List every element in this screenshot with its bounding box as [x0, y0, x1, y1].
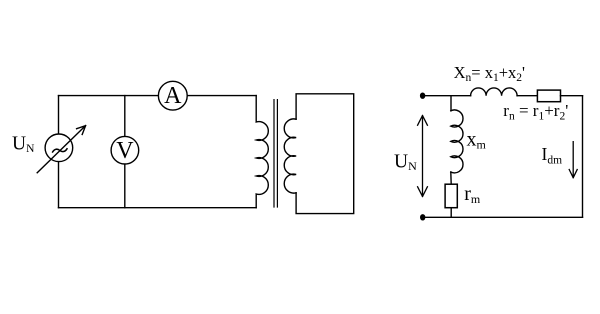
current arrow I_dm [569, 142, 577, 178]
source U_N circle [45, 134, 73, 162]
wire resistor to corner [561, 95, 583, 97]
secondary load box [296, 94, 354, 214]
inductor X_n [471, 88, 517, 96]
wire top (right circuit) [423, 95, 471, 97]
svg-text:UN: UN [394, 151, 417, 173]
svg-text:rm: rm [464, 183, 481, 206]
wire left loop top [59, 95, 257, 97]
wire inductor to resistor [517, 95, 537, 97]
resistor r_n [537, 90, 560, 102]
transformer primary winding [256, 96, 268, 208]
source adjust arrow [37, 126, 85, 173]
transformer core [274, 100, 277, 207]
svg-text:A: A [164, 83, 182, 109]
node bottom-left (right circuit) [420, 214, 425, 220]
svg-text:UN: UN [12, 134, 35, 156]
wire bottom (right circuit) [423, 216, 583, 218]
wire left vertical [58, 96, 60, 208]
svg-text:Xn= x1+x2': Xn= x1+x2' [454, 63, 525, 84]
svg-text:Idm: Idm [542, 144, 563, 167]
ammeter A circle [158, 81, 187, 110]
wire resistor to bottom [450, 208, 452, 218]
node top-left (right circuit) [420, 93, 425, 99]
wire shunt branch top [450, 96, 452, 111]
wire voltmeter branch [124, 96, 126, 208]
svg-text:V: V [116, 138, 134, 164]
voltage arrow U_N (double headed) [418, 116, 428, 197]
wire right vertical [582, 96, 584, 218]
transformer secondary winding [284, 119, 296, 193]
voltmeter V circle [111, 136, 139, 164]
wire left loop bottom [59, 207, 257, 209]
svg-text:xm: xm [467, 129, 487, 152]
source tilde [53, 149, 67, 152]
inductor x_m [451, 110, 463, 173]
wire coil to resistor [450, 172, 452, 184]
resistor r_m [445, 184, 457, 208]
svg-text:rn = r1+r2': rn = r1+r2' [503, 101, 568, 123]
